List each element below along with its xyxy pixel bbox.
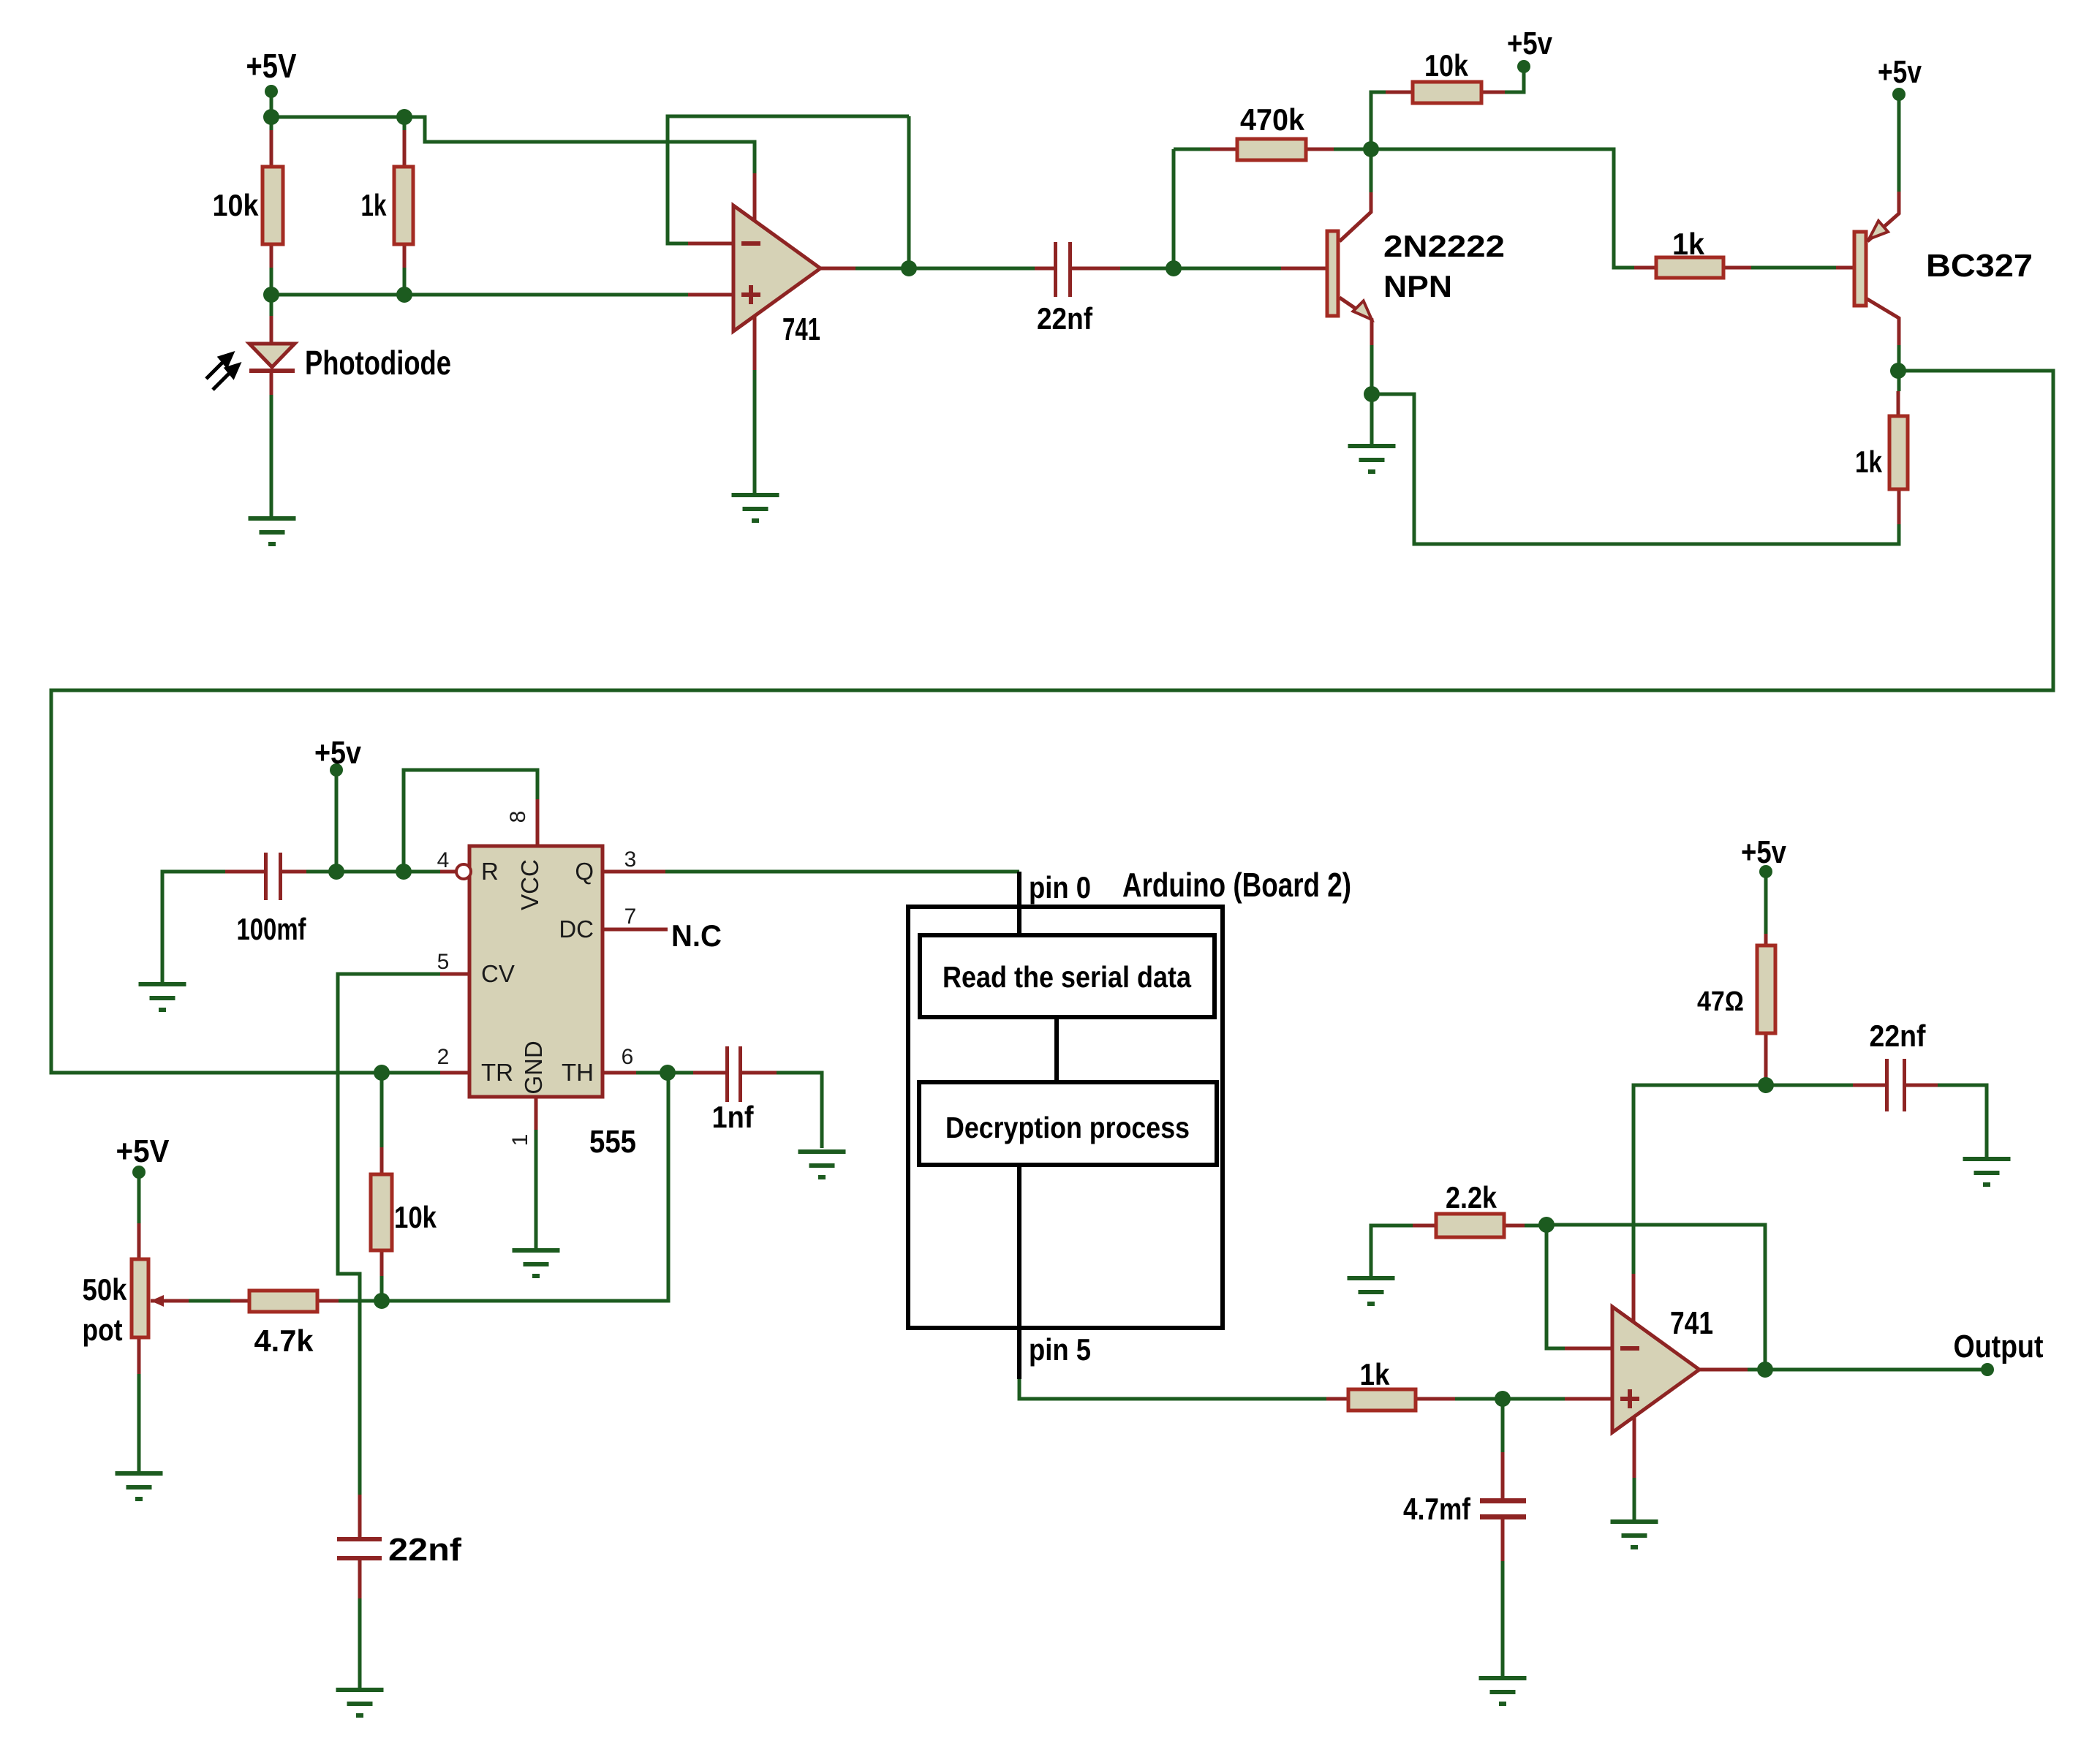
svg-text:1k: 1k [1360, 1357, 1391, 1392]
svg-text:100mf: 100mf [237, 912, 307, 946]
svg-text:10k: 10k [213, 188, 260, 222]
svg-text:Read the serial data: Read the serial data [943, 960, 1192, 994]
svg-text:50k: 50k [83, 1272, 128, 1307]
svg-text:N.C: N.C [671, 918, 722, 953]
svg-text:10k: 10k [1424, 48, 1469, 83]
svg-text:47Ω: 47Ω [1697, 986, 1744, 1017]
svg-text:Decryption process: Decryption process [945, 1111, 1190, 1144]
svg-text:1nf: 1nf [712, 1100, 755, 1134]
svg-text:CV: CV [481, 960, 515, 987]
svg-text:GND: GND [520, 1041, 547, 1094]
svg-text:7: 7 [624, 905, 637, 929]
svg-text:pin 0: pin 0 [1029, 870, 1091, 905]
svg-text:22nf: 22nf [1870, 1019, 1927, 1053]
svg-text:741: 741 [1670, 1305, 1713, 1341]
svg-text:5: 5 [437, 950, 450, 974]
svg-text:NPN: NPN [1383, 269, 1452, 303]
svg-text:TR: TR [481, 1059, 513, 1086]
svg-text:+5V: +5V [246, 47, 297, 85]
svg-text:8: 8 [506, 811, 530, 823]
svg-text:555: 555 [589, 1124, 636, 1160]
svg-text:3: 3 [624, 847, 637, 872]
svg-text:+5v: +5v [1878, 54, 1922, 90]
svg-text:4.7k: 4.7k [254, 1324, 314, 1358]
svg-text:R: R [481, 858, 499, 885]
svg-text:4.7mf: 4.7mf [1403, 1492, 1471, 1526]
svg-text:BC327: BC327 [1926, 248, 2033, 284]
svg-text:+5V: +5V [116, 1133, 170, 1169]
svg-text:6: 6 [622, 1045, 634, 1069]
svg-text:2: 2 [437, 1045, 450, 1069]
svg-text:22nf: 22nf [388, 1532, 461, 1568]
svg-text:+5v: +5v [314, 735, 361, 771]
svg-text:TH: TH [562, 1059, 594, 1086]
svg-text:2.2k: 2.2k [1446, 1180, 1497, 1215]
svg-text:Photodiode: Photodiode [305, 344, 451, 382]
svg-text:VCC: VCC [516, 859, 543, 910]
svg-text:DC: DC [559, 915, 594, 943]
svg-text:1k: 1k [1672, 227, 1705, 261]
svg-text:22nf: 22nf [1037, 301, 1093, 336]
svg-text:Q: Q [575, 858, 594, 885]
svg-text:1: 1 [508, 1134, 532, 1147]
svg-text:4: 4 [437, 848, 450, 872]
svg-text:741: 741 [782, 311, 820, 347]
svg-text:+5v: +5v [1741, 834, 1786, 870]
svg-text:+5v: +5v [1507, 26, 1552, 61]
svg-text:10k: 10k [394, 1200, 437, 1234]
svg-text:2N2222: 2N2222 [1383, 229, 1505, 263]
svg-text:pin 5: pin 5 [1029, 1332, 1091, 1367]
svg-text:Output: Output [1954, 1329, 2044, 1364]
svg-text:1k: 1k [361, 188, 387, 222]
svg-text:470k: 470k [1240, 102, 1305, 137]
svg-text:1k: 1k [1855, 445, 1883, 479]
svg-text:Arduino (Board 2): Arduino (Board 2) [1122, 866, 1351, 904]
svg-text:pot: pot [83, 1313, 123, 1347]
